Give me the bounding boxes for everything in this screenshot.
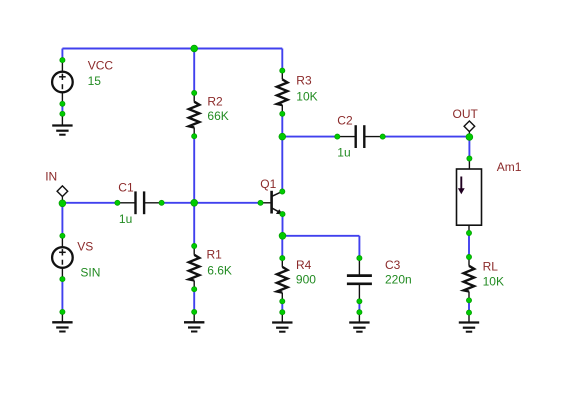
svg-text:VCC: VCC xyxy=(88,58,114,72)
svg-text:SIN: SIN xyxy=(80,266,100,280)
svg-text:C2: C2 xyxy=(337,113,353,127)
svg-text:10K: 10K xyxy=(483,275,504,289)
svg-text:220n: 220n xyxy=(385,273,412,287)
svg-text:1u: 1u xyxy=(119,212,132,226)
svg-text:OUT: OUT xyxy=(453,107,479,121)
svg-text:RL: RL xyxy=(483,259,499,273)
svg-text:Q1: Q1 xyxy=(260,177,276,191)
svg-text:C1: C1 xyxy=(118,181,134,195)
svg-text:66K: 66K xyxy=(207,109,228,123)
svg-text:10K: 10K xyxy=(296,89,317,103)
svg-text:Am1: Am1 xyxy=(497,160,522,174)
svg-text:R1: R1 xyxy=(207,248,223,262)
svg-text:R2: R2 xyxy=(207,94,223,108)
svg-text:VS: VS xyxy=(77,240,93,254)
svg-text:R3: R3 xyxy=(296,73,312,87)
svg-text:IN: IN xyxy=(45,169,57,183)
svg-text:C3: C3 xyxy=(385,258,401,272)
svg-text:15: 15 xyxy=(88,74,102,88)
svg-text:R4: R4 xyxy=(296,258,312,272)
svg-text:900: 900 xyxy=(296,273,316,287)
svg-text:6.6K: 6.6K xyxy=(207,264,232,278)
svg-text:1u: 1u xyxy=(337,146,350,160)
